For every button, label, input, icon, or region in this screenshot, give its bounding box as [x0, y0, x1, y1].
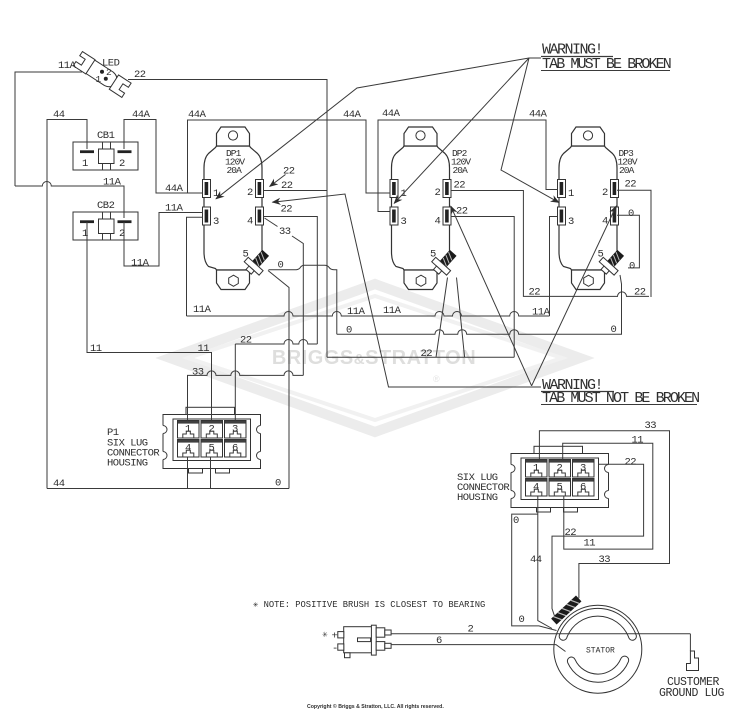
svg-text:1: 1	[82, 228, 88, 240]
svg-text:0: 0	[513, 515, 519, 527]
svg-text:STATOR: STATOR	[586, 647, 615, 656]
svg-text:22: 22	[634, 287, 646, 299]
svg-text:11A: 11A	[165, 203, 184, 215]
svg-text:-: -	[332, 643, 338, 655]
svg-text:BRIGGS&STRATTON: BRIGGS&STRATTON	[272, 347, 476, 369]
svg-text:20A: 20A	[619, 165, 635, 176]
svg-text:CB1: CB1	[97, 130, 115, 142]
svg-text:CB2: CB2	[97, 200, 115, 212]
svg-text:11A: 11A	[193, 304, 212, 316]
svg-text:+: +	[332, 631, 338, 643]
svg-text:GROUND LUG: GROUND LUG	[659, 687, 725, 700]
svg-text:20A: 20A	[453, 165, 469, 176]
svg-text:2: 2	[119, 228, 125, 240]
svg-text:0: 0	[346, 325, 352, 337]
svg-text:22: 22	[281, 180, 293, 192]
svg-text:33: 33	[279, 226, 291, 238]
svg-text:44A: 44A	[382, 108, 401, 120]
svg-text:0: 0	[278, 260, 284, 272]
svg-text:22: 22	[565, 527, 577, 539]
svg-text:2: 2	[119, 158, 125, 170]
svg-text:22: 22	[456, 206, 468, 218]
svg-text:22: 22	[454, 180, 466, 192]
svg-text:22: 22	[625, 457, 637, 469]
svg-text:0: 0	[628, 208, 634, 220]
svg-text:0: 0	[611, 324, 617, 336]
svg-text:HOUSING: HOUSING	[107, 458, 148, 470]
svg-text:44: 44	[53, 478, 65, 490]
svg-text:✳ NOTE: POSITIVE BRUSH IS CLOS: ✳ NOTE: POSITIVE BRUSH IS CLOSEST TO BEA…	[253, 600, 485, 610]
svg-text:11: 11	[198, 343, 210, 355]
svg-text:44: 44	[53, 109, 65, 121]
svg-text:33: 33	[645, 420, 657, 432]
svg-text:20A: 20A	[227, 165, 243, 176]
svg-text:22: 22	[283, 166, 295, 178]
svg-text:44A: 44A	[165, 183, 184, 195]
svg-text:0: 0	[275, 478, 281, 490]
svg-text:22: 22	[240, 335, 252, 347]
svg-text:1: 1	[82, 158, 88, 170]
svg-text:33: 33	[192, 367, 204, 379]
svg-text:44A: 44A	[529, 109, 548, 121]
svg-text:2: 2	[468, 624, 474, 636]
svg-text:44A: 44A	[132, 109, 151, 121]
svg-text:11A: 11A	[131, 258, 150, 270]
svg-text:11: 11	[632, 435, 644, 447]
svg-text:44: 44	[530, 554, 542, 566]
svg-text:11A: 11A	[58, 60, 77, 72]
svg-text:22: 22	[421, 348, 433, 360]
svg-text:6: 6	[436, 635, 442, 647]
svg-text:22: 22	[625, 179, 637, 191]
svg-text:11: 11	[90, 343, 102, 355]
svg-text:44A: 44A	[343, 109, 362, 121]
svg-text:Copyright © Briggs & Stratton,: Copyright © Briggs & Stratton, LLC. All …	[307, 703, 444, 710]
svg-text:11A: 11A	[383, 305, 402, 317]
svg-text:11A: 11A	[347, 306, 366, 318]
svg-text:44A: 44A	[188, 109, 207, 121]
svg-text:22: 22	[134, 69, 146, 81]
svg-text:11A: 11A	[532, 307, 551, 319]
svg-text:0: 0	[629, 261, 635, 273]
svg-text:HOUSING: HOUSING	[457, 492, 498, 504]
svg-text:11: 11	[584, 538, 596, 550]
svg-text:®: ®	[433, 374, 440, 384]
svg-text:22: 22	[529, 287, 541, 299]
svg-text:22: 22	[281, 204, 293, 216]
svg-text:11A: 11A	[103, 177, 122, 189]
svg-text:0: 0	[519, 614, 525, 626]
svg-text:33: 33	[599, 554, 611, 566]
